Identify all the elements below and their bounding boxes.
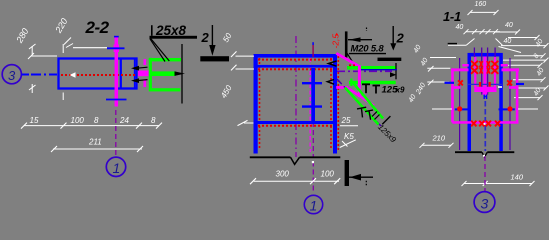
svg-text:40: 40 xyxy=(505,22,513,29)
svg-text:25x8: 25x8 xyxy=(155,23,187,38)
svg-text:x9: x9 xyxy=(395,86,405,95)
svg-text:1-1: 1-1 xyxy=(443,9,461,24)
svg-text:1: 1 xyxy=(113,160,121,176)
svg-text:140: 140 xyxy=(511,172,524,181)
svg-text:3: 3 xyxy=(481,196,489,212)
svg-text:K5: K5 xyxy=(344,132,354,141)
svg-text:40: 40 xyxy=(504,38,512,45)
svg-text:8: 8 xyxy=(151,116,156,125)
svg-text:100: 100 xyxy=(321,170,335,179)
svg-text:-2,5: -2,5 xyxy=(330,34,340,49)
svg-text:300: 300 xyxy=(276,170,290,179)
svg-text:8: 8 xyxy=(94,116,99,125)
svg-text:1: 1 xyxy=(310,198,318,214)
svg-text:3: 3 xyxy=(8,68,16,83)
svg-text:2-2: 2-2 xyxy=(85,18,110,37)
svg-text:25: 25 xyxy=(341,116,351,125)
svg-text:2: 2 xyxy=(396,30,405,45)
svg-text:160: 160 xyxy=(475,1,487,8)
svg-text:2: 2 xyxy=(201,30,210,45)
svg-text:24: 24 xyxy=(119,116,129,125)
svg-text:15: 15 xyxy=(30,116,39,125)
svg-text:210: 210 xyxy=(432,134,446,143)
svg-text:100: 100 xyxy=(71,116,85,125)
svg-text:40: 40 xyxy=(456,24,464,31)
svg-text:211: 211 xyxy=(88,138,102,147)
